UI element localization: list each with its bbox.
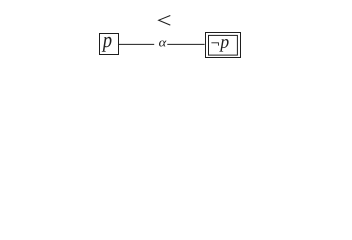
- node box p: [100, 34, 119, 55]
- label p: [102, 37, 112, 52]
- edge label α: [159, 40, 166, 46]
- wire left segment: [119, 43, 155, 45]
- label p (negated): [219, 39, 228, 52]
- node double box ¬p : outer rect: [206, 33, 241, 58]
- preference label <: [159, 16, 171, 26]
- wire right segment: [167, 43, 204, 45]
- label ¬ (negation sign): [211, 42, 219, 45]
- node double box ¬p : inner rect: [209, 35, 238, 55]
